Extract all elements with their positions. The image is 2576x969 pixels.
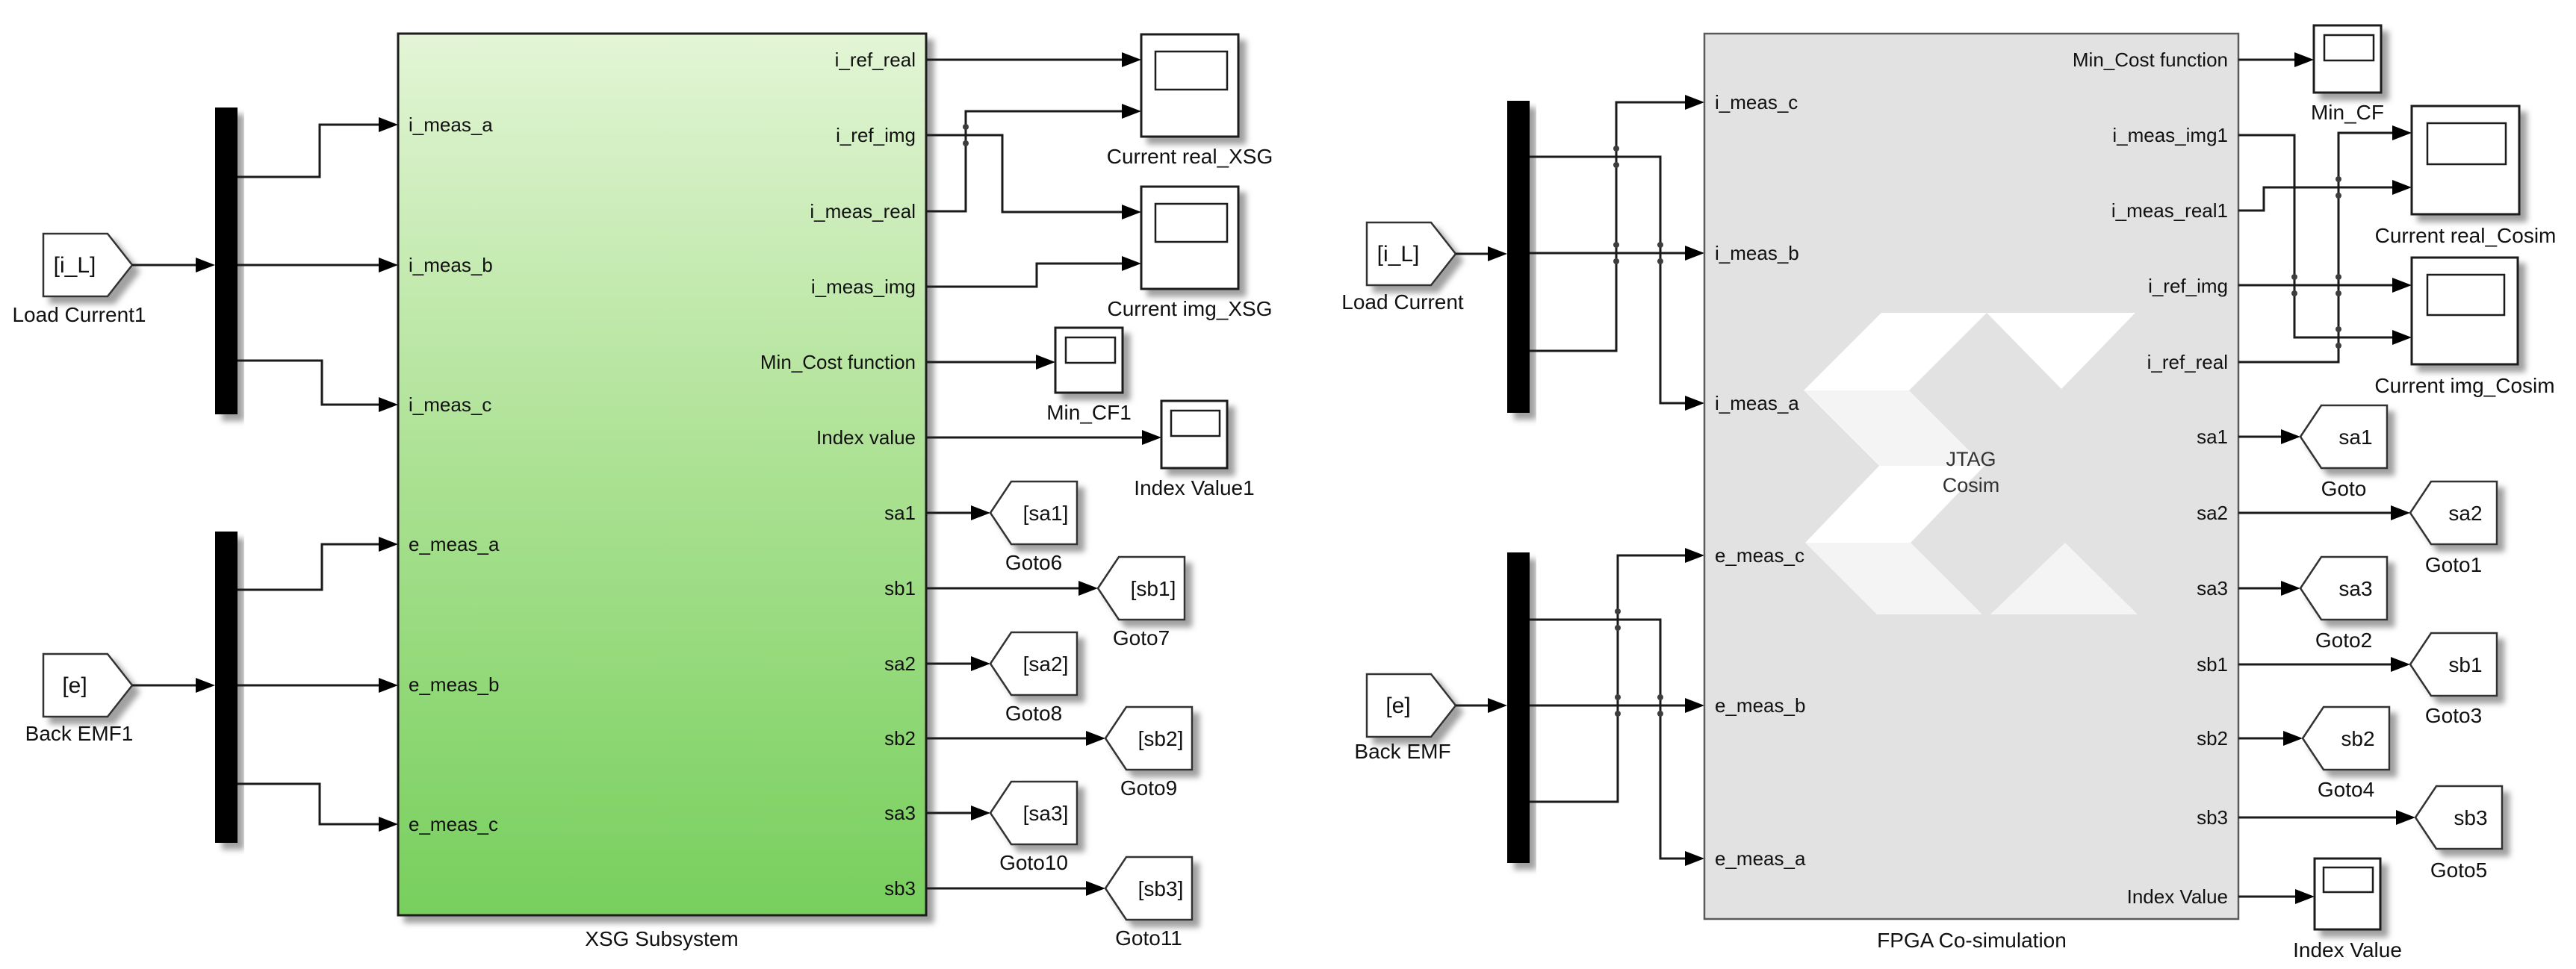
wire sb1 to Goto7 — [926, 581, 1098, 596]
goto tag Goto1 — [2410, 482, 2497, 576]
svg-text:Back EMF: Back EMF — [1354, 740, 1450, 763]
svg-text:Min_CF1: Min_CF1 — [1046, 401, 1132, 424]
svg-text:Current real_XSG: Current real_XSG — [1107, 145, 1273, 168]
wire Back EMF1 to Mux2 — [132, 678, 215, 693]
svg-text:FPGA Co-simulation: FPGA Co-simulation — [1877, 929, 2067, 952]
svg-text:i_meas_a: i_meas_a — [1715, 392, 1799, 414]
svg-text:Index value: Index value — [816, 426, 916, 449]
scope Current real_XSG — [1107, 34, 1273, 168]
svg-text:i_meas_a: i_meas_a — [409, 113, 493, 136]
wire sa1 to Goto — [2238, 429, 2300, 444]
scope Min_CF1 — [1046, 328, 1132, 424]
wire i_meas_real to real scope input2 — [926, 104, 1141, 211]
svg-text:JTAG: JTAG — [1946, 448, 1996, 470]
svg-text:[e]: [e] — [1385, 694, 1410, 718]
svg-text:Goto: Goto — [2321, 477, 2367, 500]
goto tag Goto11 — [1105, 857, 1192, 950]
goto tag Goto2 — [2300, 557, 2387, 652]
svg-text:e_meas_b: e_meas_b — [409, 673, 499, 696]
wire sa2 to Goto8 — [926, 656, 990, 671]
wire Mux4 middle tap to e_meas_b — [1530, 698, 1704, 713]
from tag Load Current1 — [12, 234, 146, 326]
wire i_meas_img to img scope input2 — [926, 256, 1141, 287]
goto tag Goto10 — [990, 782, 1077, 874]
svg-text:Cosim: Cosim — [1943, 474, 2000, 496]
svg-text:i_meas_img: i_meas_img — [811, 275, 916, 298]
wire sb2 to Goto9 — [926, 731, 1105, 746]
scope Min_CF — [2311, 25, 2384, 124]
svg-text:[sa3]: [sa3] — [1023, 802, 1069, 825]
subsystem FPGA Co-simulation — [1704, 34, 2238, 919]
from tag Back EMF — [1354, 674, 1456, 763]
svg-text:Current real_Cosim: Current real_Cosim — [2375, 224, 2557, 247]
svg-text:sa2: sa2 — [2197, 502, 2228, 524]
svg-text:sa3: sa3 — [2338, 577, 2372, 600]
svg-text:sb1: sb1 — [2197, 653, 2228, 676]
svg-text:i_ref_img: i_ref_img — [836, 124, 916, 146]
wire crossing hop marks left — [963, 124, 969, 146]
svg-text:Goto3: Goto3 — [2425, 704, 2482, 727]
wire i_ref_real to real_Cosim input1 — [2238, 125, 2412, 362]
wire sb3 to Goto11 — [926, 881, 1105, 896]
wire sb2 to Goto4 — [2238, 731, 2303, 746]
svg-text:XSG Subsystem: XSG Subsystem — [585, 927, 738, 950]
svg-text:Goto5: Goto5 — [2430, 859, 2487, 882]
svg-text:sb1: sb1 — [2448, 653, 2482, 676]
svg-text:Goto9: Goto9 — [1120, 776, 1177, 800]
svg-text:i_ref_real: i_ref_real — [2147, 351, 2228, 373]
svg-text:i_meas_b: i_meas_b — [409, 254, 493, 276]
svg-text:Back EMF1: Back EMF1 — [25, 722, 134, 745]
svg-text:Load Current1: Load Current1 — [12, 303, 146, 326]
svg-text:Min_Cost function: Min_Cost function — [760, 351, 916, 373]
from tag Back EMF1 — [25, 654, 134, 745]
svg-text:sa3: sa3 — [2197, 577, 2228, 599]
svg-text:Goto10: Goto10 — [999, 851, 1068, 874]
svg-text:sa2: sa2 — [884, 652, 916, 675]
svg-text:[sb1]: [sb1] — [1131, 577, 1176, 600]
svg-text:sb2: sb2 — [884, 727, 916, 750]
scope Current img_XSG — [1108, 187, 1273, 320]
wire sa1 to Goto6 — [926, 505, 990, 520]
svg-text:[i_L]: [i_L] — [54, 253, 96, 278]
wire Mux2 to e_meas_c — [238, 784, 398, 832]
svg-text:Goto8: Goto8 — [1005, 702, 1062, 725]
svg-text:Index Value: Index Value — [2293, 938, 2402, 962]
wire sa2 to Goto1 — [2238, 505, 2410, 520]
svg-text:Index Value1: Index Value1 — [1134, 476, 1254, 499]
svg-text:sb2: sb2 — [2197, 727, 2228, 750]
Xilinx logo pale triangle bottom-right — [1990, 543, 2138, 614]
svg-text:e_meas_c: e_meas_c — [1715, 544, 1804, 567]
svg-text:Current img_Cosim: Current img_Cosim — [2374, 374, 2554, 397]
svg-text:[e]: [e] — [62, 673, 87, 698]
wire i_ref_img to img_Cosim input1 — [2238, 278, 2412, 293]
svg-text:Min_CF: Min_CF — [2311, 101, 2384, 124]
goto tag Goto4 — [2303, 707, 2389, 801]
goto tag Goto9 — [1105, 707, 1192, 800]
wire Mux3 middle tap to i_meas_b — [1530, 246, 1704, 261]
wire i_ref_real to scope — [926, 52, 1141, 67]
svg-text:sb3: sb3 — [884, 877, 916, 900]
wire i_meas_img1 to img_Cosim input2 — [2238, 135, 2412, 345]
svg-text:Goto6: Goto6 — [1005, 551, 1062, 574]
Xilinx logo pale band bottom-left — [1805, 543, 1982, 614]
scope Current real_Cosim — [2375, 106, 2557, 247]
FPGA block port labels — [1715, 49, 2228, 952]
wire sb1 to Goto3 — [2238, 657, 2410, 672]
wire Load Current1 to Mux1 — [132, 258, 215, 272]
svg-text:Goto2: Goto2 — [2315, 629, 2372, 652]
mux Mux4 — [1507, 552, 1530, 863]
svg-text:sa1: sa1 — [2197, 426, 2228, 448]
wire i_meas_real1 to real_Cosim input2 — [2238, 180, 2412, 211]
svg-text:Goto7: Goto7 — [1113, 626, 1170, 649]
mux Mux1 — [215, 108, 238, 414]
scope Current img_Cosim — [2374, 258, 2554, 397]
Xilinx logo white band lower-left — [1805, 466, 1984, 543]
svg-text:sa1: sa1 — [884, 502, 916, 524]
wire sb3 to Goto5 — [2238, 810, 2415, 825]
goto tag Goto8 — [990, 632, 1077, 725]
goto tag Goto6 — [990, 482, 1077, 574]
svg-text:sb2: sb2 — [2341, 727, 2374, 750]
wire crossing hop marks right — [1613, 146, 2341, 717]
svg-text:i_meas_c: i_meas_c — [409, 393, 491, 416]
wire Mux1 to i_meas_c — [238, 361, 398, 412]
wire Min_Cost function to Min_CF — [2238, 52, 2314, 67]
svg-text:e_meas_b: e_meas_b — [1715, 694, 1805, 717]
svg-text:Goto1: Goto1 — [2425, 553, 2482, 576]
svg-text:sb3: sb3 — [2197, 806, 2228, 829]
svg-text:sb1: sb1 — [884, 577, 916, 599]
wire Mux3 bottom tap to i_meas_c — [1530, 95, 1704, 351]
svg-text:i_ref_real: i_ref_real — [835, 49, 916, 71]
wire Index value to Index Value1 — [926, 430, 1161, 445]
wire Back EMF to Mux4 — [1456, 698, 1507, 713]
mux Mux3 — [1507, 101, 1530, 413]
wire Index Value to scope — [2238, 889, 2315, 904]
wire sa3 to Goto2 — [2238, 581, 2300, 596]
goto tag Goto5 — [2415, 786, 2502, 882]
wire Mux1 to i_meas_b — [238, 258, 398, 272]
goto tag Goto — [2300, 405, 2387, 500]
wire i_ref_img to img scope input1 — [926, 135, 1141, 219]
svg-text:[sa2]: [sa2] — [1023, 652, 1069, 676]
svg-text:Min_Cost function: Min_Cost function — [2073, 49, 2228, 71]
svg-text:sb3: sb3 — [2454, 806, 2487, 829]
svg-text:i_meas_img1: i_meas_img1 — [2112, 124, 2228, 146]
svg-text:i_meas_real: i_meas_real — [810, 200, 916, 222]
svg-text:Current img_XSG: Current img_XSG — [1108, 297, 1273, 320]
svg-text:[i_L]: [i_L] — [1377, 242, 1420, 267]
goto tag Goto7 — [1098, 557, 1185, 649]
scope Index Value — [2293, 859, 2402, 962]
mux Mux2 — [215, 532, 238, 843]
svg-text:e_meas_a: e_meas_a — [409, 533, 500, 555]
wire Min_Cost function to Min_CF1 — [926, 355, 1055, 370]
svg-text:[sb3]: [sb3] — [1138, 877, 1184, 900]
svg-text:sa3: sa3 — [884, 802, 916, 824]
svg-text:Goto4: Goto4 — [2318, 778, 2374, 801]
svg-text:i_meas_b: i_meas_b — [1715, 242, 1799, 264]
svg-text:Goto11: Goto11 — [1115, 926, 1182, 950]
svg-text:Load Current: Load Current — [1341, 290, 1464, 314]
svg-text:Index Value: Index Value — [2127, 885, 2228, 908]
JTAG Cosim caption — [1943, 448, 2000, 496]
svg-text:sa1: sa1 — [2338, 426, 2372, 449]
subsystem XSG Subsystem — [398, 34, 926, 950]
svg-text:[sb2]: [sb2] — [1138, 727, 1184, 750]
svg-text:e_meas_a: e_meas_a — [1715, 847, 1806, 870]
wire sa3 to Goto10 — [926, 806, 990, 820]
goto tag Goto3 — [2410, 633, 2497, 727]
wire Mux4 bottom tap to e_meas_c — [1530, 548, 1704, 802]
Xilinx logo pale band middle-left — [1804, 390, 1984, 466]
wire Mux1 to i_meas_a — [238, 117, 398, 177]
svg-text:i_ref_img: i_ref_img — [2148, 275, 2228, 297]
svg-text:[sa1]: [sa1] — [1023, 502, 1069, 525]
svg-text:i_meas_c: i_meas_c — [1715, 91, 1798, 113]
wire Mux2 to e_meas_a — [238, 537, 398, 590]
svg-text:i_meas_real1: i_meas_real1 — [2111, 199, 2228, 222]
svg-text:sa2: sa2 — [2448, 502, 2482, 525]
Xilinx logo white band upper-left — [1804, 313, 1987, 390]
wire Load Current to Mux3 — [1456, 246, 1507, 261]
wire Mux3 top tap to i_meas_a — [1530, 157, 1704, 411]
from tag Load Current — [1341, 222, 1464, 314]
wire Mux4 top tap to e_meas_a — [1530, 620, 1704, 866]
svg-text:e_meas_c: e_meas_c — [409, 813, 498, 835]
Xilinx logo white triangle upper-right — [1987, 313, 2135, 389]
wire Mux2 to e_meas_b — [238, 678, 398, 693]
scope Index Value1 — [1134, 401, 1254, 499]
